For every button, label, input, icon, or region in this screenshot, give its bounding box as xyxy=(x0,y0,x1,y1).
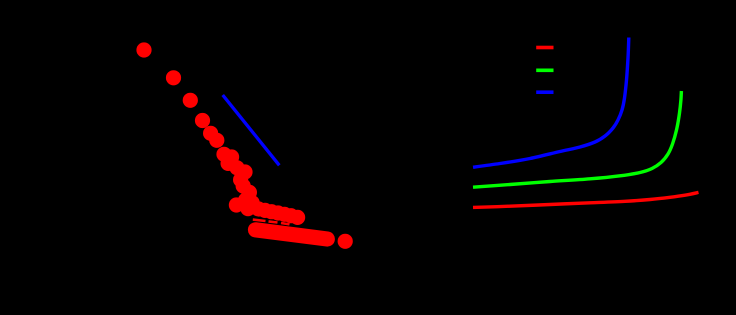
scatter row1 point 19 xyxy=(251,201,266,216)
scatter point 11 xyxy=(237,164,252,179)
scatter point 13 xyxy=(236,178,251,193)
thin red line segment b xyxy=(269,221,278,222)
blue curve (right panel, top) xyxy=(473,38,629,168)
scatter row1 point 22 xyxy=(270,205,285,220)
scatter point 12 xyxy=(233,172,248,187)
scatter point 6 xyxy=(209,133,224,148)
right panel: legend marker red xyxy=(536,46,553,50)
scatter point 26 (isolated right) xyxy=(338,234,353,249)
scatter row1 point 20 xyxy=(257,203,272,218)
scatter point 15 xyxy=(238,192,253,207)
scatter row1 point 25 xyxy=(290,210,305,225)
scatter point 10 xyxy=(229,160,244,175)
scatter point 3 xyxy=(183,93,198,108)
legend marker green xyxy=(536,69,553,73)
scatter point 8 xyxy=(224,149,239,164)
thin red line segment a xyxy=(253,220,266,221)
red curve (right panel, bottom) xyxy=(473,192,699,207)
left panel: red scatter series xyxy=(136,42,352,249)
scatter row1 point 24 xyxy=(283,208,298,223)
scatter point 18 (isolated left) xyxy=(229,197,244,212)
scatter point 2 xyxy=(166,70,181,85)
scatter point 14 xyxy=(242,185,257,200)
scatter point 1 xyxy=(136,42,151,57)
scatter point 17 xyxy=(240,201,255,216)
scatter point 5 xyxy=(203,126,218,141)
scatter point 7 xyxy=(216,147,231,162)
thin red line segment c xyxy=(281,223,290,224)
legend marker blue xyxy=(536,90,553,94)
blue fit line (left panel) xyxy=(223,95,280,165)
dense scatter bar (overlapping points) xyxy=(256,230,328,239)
scatter point 9 xyxy=(221,156,236,171)
scatter row1 point 23 xyxy=(277,207,292,222)
scatter point 16 xyxy=(245,195,260,210)
scatter point 4 xyxy=(195,113,210,128)
green curve (right panel, middle) xyxy=(473,91,681,187)
scatter row1 point 21 xyxy=(264,204,279,219)
